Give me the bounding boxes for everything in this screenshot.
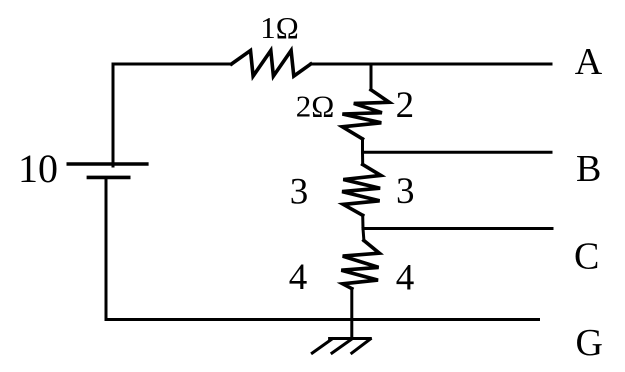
battery V1 positive plate [68, 162, 147, 165]
ground symbol bar [330, 337, 371, 340]
ground symbol hatch 1 [352, 339, 371, 353]
svg-text:B: B [576, 148, 601, 190]
svg-text:G: G [576, 322, 603, 364]
wire node B to terminal B [363, 151, 552, 154]
wire node C to terminal C [363, 227, 552, 230]
svg-text:A: A [575, 41, 603, 83]
svg-text:3: 3 [396, 171, 415, 212]
svg-text:C: C [574, 236, 599, 278]
wire battery negative to bottom rail [105, 178, 108, 320]
wire stub R4 down through bottom wire to ground [350, 289, 353, 339]
svg-text:2: 2 [396, 85, 415, 126]
wire top-left corner from battery to resistor R1 [113, 64, 232, 166]
resistor R3 3ohm (vertical sawtooth) [342, 165, 381, 216]
battery V1 negative plate [88, 176, 128, 180]
svg-text:10: 10 [18, 146, 58, 191]
wire stub node C to R4 [362, 229, 366, 241]
svg-text:3: 3 [290, 172, 309, 213]
resistor R2 2ohm (vertical sawtooth) [342, 90, 389, 139]
wire stub R3 to node C [361, 215, 364, 228]
wire stub from node A down to R2 [370, 64, 373, 90]
svg-text:2Ω: 2Ω [296, 89, 335, 124]
ground symbol hatch 2 [332, 339, 352, 353]
svg-text:1Ω: 1Ω [260, 10, 299, 45]
wire node A: R1 to terminal A [311, 63, 551, 66]
wire stub node B to R3 [361, 152, 364, 164]
resistor R4 4ohm (vertical sawtooth) [341, 241, 379, 289]
svg-text:4: 4 [396, 258, 415, 299]
ground symbol hatch 3 [312, 339, 332, 353]
svg-text:4: 4 [289, 257, 308, 298]
wire bottom rail (node G) [106, 318, 539, 321]
wire stub R2 to node B [361, 139, 364, 152]
resistor R1 1ohm (horizontal sawtooth) [232, 51, 311, 77]
